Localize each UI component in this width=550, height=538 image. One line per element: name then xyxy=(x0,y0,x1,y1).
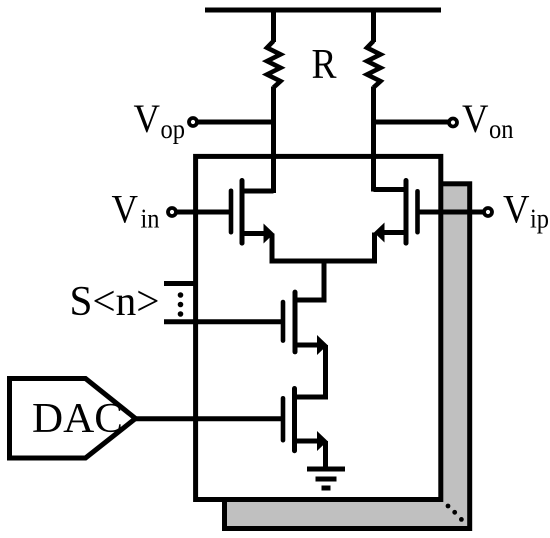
top supply rail xyxy=(205,8,441,13)
svg-text:op: op xyxy=(161,114,186,144)
wire M1 drain xyxy=(295,298,327,303)
svg-text:ip: ip xyxy=(530,204,549,234)
transistor M2 gate bar xyxy=(281,398,286,440)
svg-text:V: V xyxy=(134,96,161,141)
wire Vop tap xyxy=(198,120,274,125)
transistor M4 channel bar xyxy=(404,181,409,244)
wire rail to right resistor xyxy=(371,8,376,43)
terminal Von xyxy=(449,119,457,127)
terminal Vip xyxy=(484,208,492,216)
wire M2 drain xyxy=(295,395,326,400)
svg-text:V: V xyxy=(462,96,489,141)
wire M2 source xyxy=(295,439,320,444)
shadow cell box (repeated cell behind) xyxy=(225,184,470,529)
transistor M3 channel bar xyxy=(240,181,245,244)
arrow M1 source xyxy=(317,335,328,355)
wire rail to left resistor xyxy=(271,8,276,43)
ellipsis dots on shadow box corner xyxy=(446,504,464,522)
transistor M1 gate bar xyxy=(281,302,286,341)
svg-text:V: V xyxy=(112,187,139,232)
wire DAC to M2 gate xyxy=(134,416,283,421)
wire tail node drop xyxy=(322,261,327,303)
wire M1 source xyxy=(295,343,319,348)
wire common source node xyxy=(270,259,378,264)
wire M3 source xyxy=(242,231,266,236)
arrow M3 source xyxy=(264,224,275,244)
wire M1 source drop xyxy=(323,345,328,400)
svg-text:R: R xyxy=(312,42,337,88)
wire M4 source xyxy=(382,230,406,235)
wire M4 source drop xyxy=(372,233,377,264)
resistor R (left) xyxy=(267,41,281,88)
ellipsis dots switch lines xyxy=(178,292,184,317)
wire Vip to M4 gate xyxy=(418,210,484,215)
wire Vin to M3 gate xyxy=(177,210,231,215)
wire Von tap xyxy=(374,120,449,125)
terminal Vin xyxy=(168,208,176,216)
wire right resistor to M4 drain xyxy=(371,87,376,192)
arrow M4 source xyxy=(374,223,385,243)
ground symbol xyxy=(307,469,345,488)
wire M3 source drop xyxy=(270,234,275,264)
transistor M1 channel bar xyxy=(293,292,298,352)
svg-text:in: in xyxy=(141,204,160,234)
svg-text:V: V xyxy=(503,187,530,232)
terminal Vop xyxy=(189,118,197,126)
main cell box xyxy=(196,156,441,499)
wire left resistor to M3 drain xyxy=(271,87,276,194)
arrow M2 source xyxy=(317,431,328,451)
transistor M2 channel bar xyxy=(292,389,297,451)
svg-text:S<n>: S<n> xyxy=(70,279,160,325)
svg-text:DAC: DAC xyxy=(32,395,123,442)
svg-text:on: on xyxy=(489,114,514,144)
wire M2 source drop xyxy=(323,441,328,469)
wire M3 drain xyxy=(242,189,274,194)
transistor M3 gate bar xyxy=(229,191,234,232)
stub other switch rows xyxy=(164,281,197,286)
wire switch line S to M1 gate xyxy=(164,319,283,324)
transistor M4 gate bar xyxy=(415,191,420,232)
wire M4 drain xyxy=(374,187,407,192)
resistor R (right) xyxy=(367,41,381,88)
DAC block symbol xyxy=(10,379,136,459)
